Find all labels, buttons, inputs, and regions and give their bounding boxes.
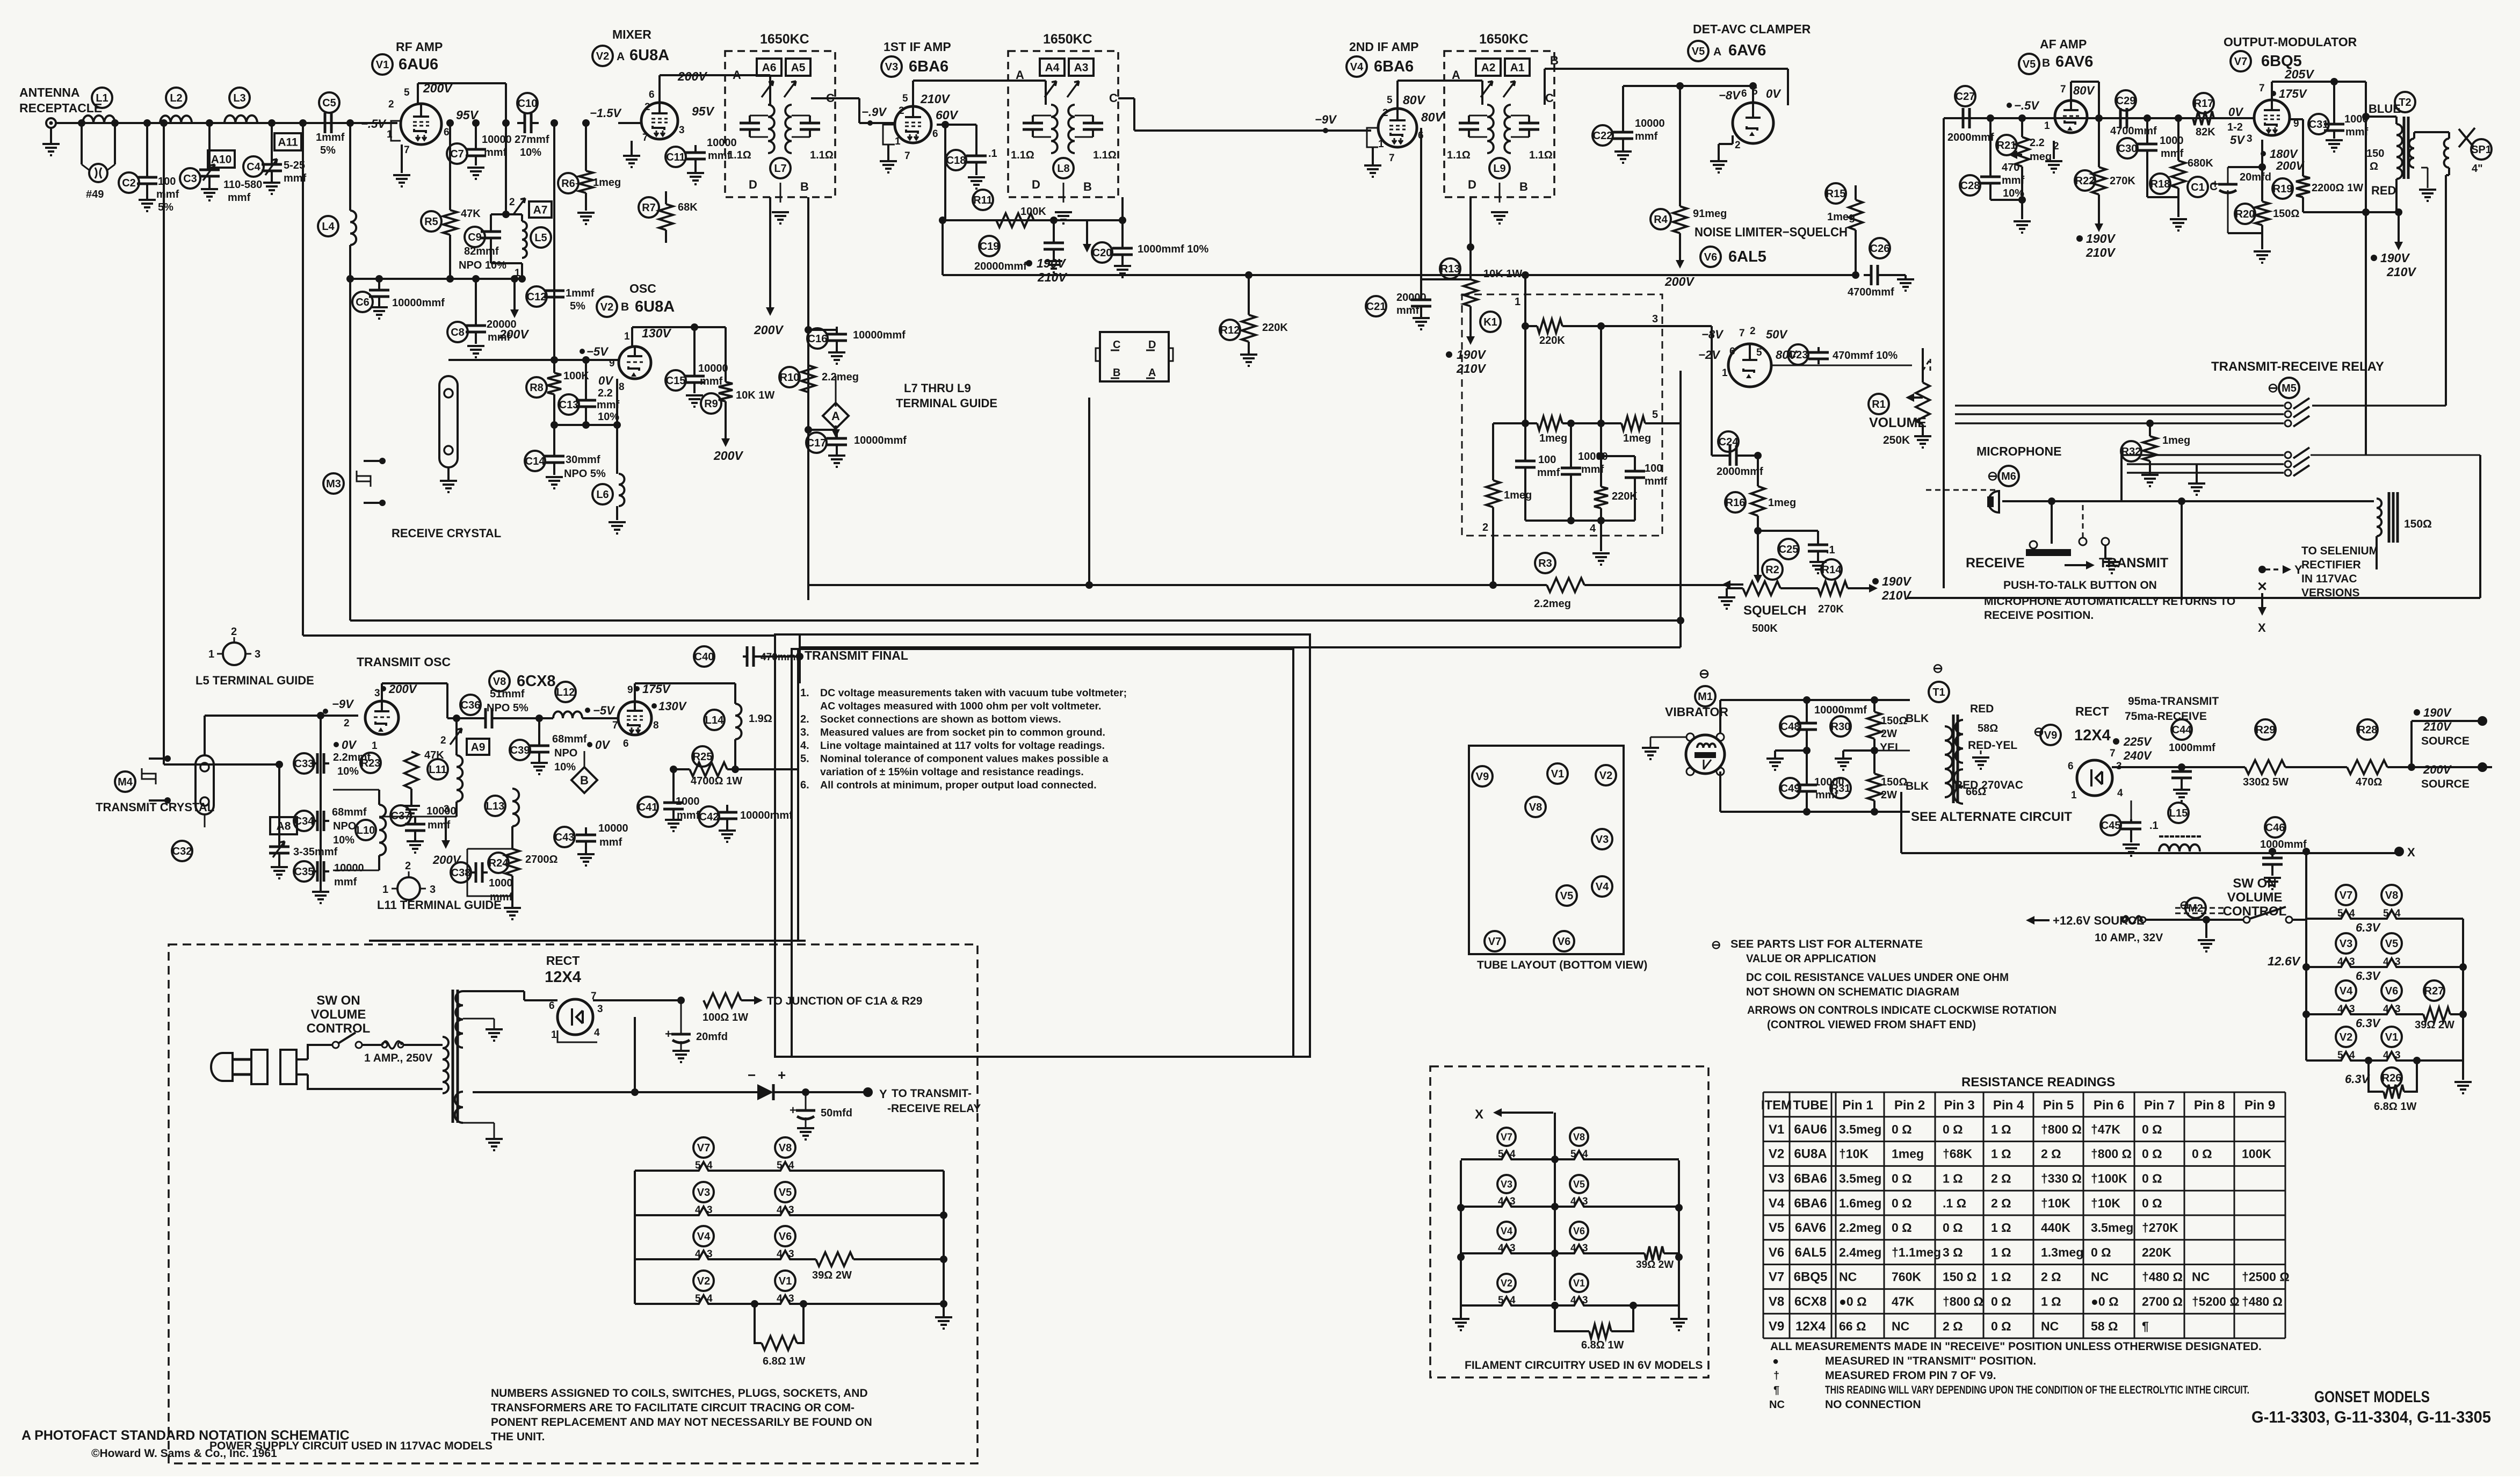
svg-text:220K: 220K	[1539, 335, 1565, 347]
svg-text:2: 2	[440, 735, 446, 746]
svg-text:2W: 2W	[1881, 728, 1897, 740]
svg-text:0 Ω: 0 Ω	[2142, 1172, 2162, 1186]
svg-text:DC voltage measurements taken: DC voltage measurements taken with vacuu…	[820, 687, 1127, 699]
svg-text:V4: V4	[1596, 881, 1609, 893]
svg-text:27mmf: 27mmf	[515, 134, 549, 146]
svg-text:BLK: BLK	[1906, 780, 1929, 792]
svg-text:2: 2	[1750, 326, 1756, 337]
svg-text:1000mmf 10%: 1000mmf 10%	[1138, 243, 1209, 255]
svg-text:+12.6V SOURCE: +12.6V SOURCE	[2053, 914, 2145, 927]
svg-text:mmf: mmf	[428, 819, 451, 831]
svg-text:3.5meg: 3.5meg	[1839, 1122, 1881, 1136]
svg-text:V1: V1	[1573, 1278, 1585, 1288]
svg-text:3: 3	[788, 1249, 794, 1260]
svg-text:V6: V6	[2385, 985, 2398, 997]
svg-text:mmf: mmf	[708, 150, 731, 162]
svg-text:1.9Ω: 1.9Ω	[749, 713, 772, 725]
svg-text:10000: 10000	[334, 862, 364, 874]
svg-text:200V: 200V	[1664, 275, 1695, 288]
svg-text:R22: R22	[2075, 175, 2095, 187]
svg-text:RECEIVE CRYSTAL: RECEIVE CRYSTAL	[392, 526, 501, 540]
svg-text:6AV6: 6AV6	[1728, 42, 1766, 59]
svg-text:12.6V: 12.6V	[2268, 954, 2301, 968]
svg-text:R18: R18	[2150, 178, 2170, 190]
svg-text:6BA6: 6BA6	[1794, 1172, 1827, 1186]
svg-text:6.8Ω 1W: 6.8Ω 1W	[2374, 1101, 2417, 1113]
svg-text:C25: C25	[1779, 544, 1799, 555]
svg-text:C27: C27	[1956, 91, 1975, 103]
svg-text:R25: R25	[693, 751, 713, 763]
svg-text:A4: A4	[1045, 62, 1060, 74]
svg-text:SEE ALTERNATE CIRCUIT: SEE ALTERNATE CIRCUIT	[1911, 810, 2072, 824]
svg-text:2700Ω: 2700Ω	[525, 854, 558, 865]
svg-text:mmf: mmf	[156, 189, 179, 200]
svg-text:2200Ω 1W: 2200Ω 1W	[2312, 182, 2363, 194]
svg-text:4: 4	[594, 1027, 600, 1038]
svg-text:V2: V2	[1769, 1147, 1784, 1161]
svg-text:1 Ω: 1 Ω	[2041, 1295, 2061, 1309]
svg-text:6CX8: 6CX8	[517, 673, 556, 690]
svg-text:6.8Ω 1W: 6.8Ω 1W	[1581, 1339, 1624, 1351]
svg-text:−2V: −2V	[1698, 348, 1721, 362]
svg-text:V4: V4	[2340, 985, 2353, 997]
svg-text:RECT: RECT	[2075, 704, 2109, 718]
svg-text:C33: C33	[294, 758, 314, 770]
svg-text:1ST IF AMP: 1ST IF AMP	[884, 40, 951, 54]
svg-text:3: 3	[2349, 956, 2355, 968]
svg-text:OUTPUT-MODULATOR: OUTPUT-MODULATOR	[2224, 35, 2357, 49]
svg-text:R28: R28	[2358, 724, 2378, 736]
svg-text:150 Ω: 150 Ω	[1943, 1270, 1976, 1284]
svg-text:0V: 0V	[2228, 105, 2244, 119]
svg-text:3: 3	[1582, 1243, 1588, 1254]
svg-text:variation of ± 15%in voltage a: variation of ± 15%in voltage and resista…	[820, 766, 1084, 778]
svg-text:1meg: 1meg	[593, 177, 621, 189]
svg-text:95ma-TRANSMIT: 95ma-TRANSMIT	[2128, 695, 2219, 708]
svg-text:110-580: 110-580	[223, 179, 262, 191]
svg-text:OSC: OSC	[629, 282, 656, 295]
svg-text:205V: 205V	[2284, 67, 2314, 81]
svg-text:7: 7	[2259, 83, 2265, 94]
svg-text:5: 5	[695, 1293, 701, 1304]
svg-text:FILAMENT CIRCUITRY USED IN 6V: FILAMENT CIRCUITRY USED IN 6V MODELS	[1465, 1359, 1703, 1372]
svg-text:Socket connections are shown a: Socket connections are shown as bottom v…	[820, 713, 1061, 725]
svg-text:−: −	[748, 1067, 756, 1083]
svg-text:V4: V4	[697, 1231, 711, 1243]
svg-text:7: 7	[904, 150, 910, 162]
svg-text:10000mmf: 10000mmf	[854, 435, 907, 446]
svg-text:©Howard W. Sams & Co., In: ©Howard W. Sams & Co., Inc. 1961	[91, 1447, 277, 1460]
svg-text:190V: 190V	[2086, 232, 2116, 246]
svg-text:210V: 210V	[1456, 362, 1486, 376]
svg-text:MICROPHONE: MICROPHONE	[1976, 444, 2061, 458]
svg-text:4: 4	[1498, 1196, 1504, 1207]
svg-text:R29: R29	[2256, 724, 2276, 736]
svg-text:C18: C18	[946, 155, 966, 167]
svg-text:AF AMP: AF AMP	[2040, 37, 2087, 51]
svg-text:V1: V1	[1551, 768, 1564, 780]
svg-text:.1 Ω: .1 Ω	[1943, 1196, 1966, 1210]
svg-text:M4: M4	[118, 776, 133, 788]
svg-text:TRANSMIT-RECEIVE RELAY: TRANSMIT-RECEIVE RELAY	[2211, 359, 2384, 374]
svg-text:C44: C44	[2172, 724, 2192, 736]
svg-text:¶: ¶	[1773, 1384, 1779, 1396]
svg-text:V3: V3	[1501, 1179, 1512, 1189]
svg-text:3: 3	[1510, 1196, 1516, 1207]
svg-text:10%: 10%	[520, 147, 541, 158]
svg-text:†270K: †270K	[2142, 1221, 2178, 1235]
svg-text:mmf: mmf	[334, 876, 357, 888]
svg-text:3 Ω: 3 Ω	[1943, 1245, 1963, 1259]
svg-text:C23: C23	[1788, 349, 1808, 361]
svg-text:5: 5	[1652, 409, 1658, 421]
svg-text:C34: C34	[294, 816, 315, 827]
svg-text:mmf: mmf	[677, 810, 700, 821]
svg-text:C35: C35	[294, 866, 314, 878]
svg-text:SOURCE: SOURCE	[2421, 778, 2470, 790]
svg-text:2000mmf: 2000mmf	[1947, 132, 1994, 143]
svg-text:X: X	[2258, 621, 2266, 634]
svg-text:TRANSMIT: TRANSMIT	[2099, 555, 2168, 571]
svg-text:4: 4	[1498, 1243, 1504, 1254]
svg-text:2.2meg: 2.2meg	[1839, 1221, 1881, 1235]
svg-text:Y: Y	[2294, 563, 2302, 576]
svg-text:1: 1	[1722, 367, 1728, 379]
svg-text:12X4: 12X4	[1795, 1319, 1826, 1333]
svg-text:NUMBERS ASSIGNED TO COILS, SWI: NUMBERS ASSIGNED TO COILS, SWITCHES, PLU…	[491, 1387, 868, 1399]
svg-text:THIS READING WILL VARY DEPENDI: THIS READING WILL VARY DEPENDING UPON TH…	[1825, 1384, 2249, 1396]
svg-text:R6: R6	[561, 178, 575, 190]
svg-text:1mmf: 1mmf	[566, 287, 595, 299]
svg-text:BLK: BLK	[1906, 712, 1929, 725]
svg-text:2.2meg: 2.2meg	[822, 371, 859, 383]
svg-text:C45: C45	[2101, 820, 2121, 832]
svg-text:3: 3	[255, 648, 260, 660]
svg-text:3: 3	[1652, 313, 1658, 325]
svg-text:0 Ω: 0 Ω	[1892, 1196, 1912, 1210]
svg-text:100K: 100K	[1020, 206, 1046, 218]
svg-text:250K: 250K	[1883, 434, 1910, 446]
svg-text:L11 TERMINAL GUIDE: L11 TERMINAL GUIDE	[377, 898, 502, 912]
svg-text:R4: R4	[1654, 214, 1668, 226]
svg-text:(CONTROL VIEWED FROM SHAFT: (CONTROL VIEWED FROM SHAFT END)	[1767, 1019, 1976, 1031]
svg-text:−5V: −5V	[593, 704, 615, 717]
svg-text:B: B	[621, 301, 629, 313]
svg-text:1 Ω: 1 Ω	[1991, 1245, 2011, 1259]
svg-text:680K: 680K	[2188, 157, 2213, 169]
svg-text:2.2: 2.2	[598, 387, 613, 399]
svg-text:6.: 6.	[800, 780, 809, 791]
svg-text:Measured values are from socke: Measured values are from socket pin to c…	[820, 727, 1105, 739]
svg-text:7: 7	[1389, 153, 1395, 164]
svg-text:60V: 60V	[936, 108, 959, 122]
svg-text:VOLUME: VOLUME	[311, 1007, 366, 1022]
svg-text:L12: L12	[556, 687, 575, 698]
svg-text:1.: 1.	[800, 687, 809, 699]
svg-text:1 Ω: 1 Ω	[1991, 1122, 2011, 1136]
svg-text:82mmf: 82mmf	[464, 246, 499, 257]
svg-text:6.8Ω 1W: 6.8Ω 1W	[763, 1355, 806, 1367]
svg-text:6.3V: 6.3V	[2356, 921, 2381, 934]
svg-text:R32: R32	[2121, 446, 2141, 458]
svg-text:A9: A9	[471, 741, 486, 754]
svg-text:330Ω 5W: 330Ω 5W	[2243, 776, 2289, 788]
svg-text:2: 2	[899, 105, 904, 117]
svg-text:●0 Ω: ●0 Ω	[2091, 1295, 2119, 1309]
svg-text:270K: 270K	[2110, 175, 2135, 187]
svg-text:R12: R12	[1220, 324, 1240, 336]
svg-text:mmf: mmf	[1635, 131, 1658, 142]
svg-text:Pin 7: Pin 7	[2144, 1098, 2175, 1113]
svg-text:C12: C12	[527, 291, 547, 303]
svg-text:L13: L13	[486, 800, 504, 812]
svg-text:†5200 Ω: †5200 Ω	[2192, 1295, 2240, 1309]
svg-text:Pin 2: Pin 2	[1894, 1098, 1925, 1113]
svg-text:V3: V3	[697, 1187, 710, 1199]
svg-text:NC: NC	[1769, 1399, 1785, 1411]
svg-text:225V: 225V	[2123, 735, 2153, 748]
svg-text:2.4meg: 2.4meg	[1839, 1245, 1881, 1259]
svg-text:1: 1	[624, 331, 630, 342]
svg-text:ARROWS ON CONTROLS INDICATE: ARROWS ON CONTROLS INDICATE CLOCKWISE RO…	[1747, 1004, 2056, 1016]
svg-text:200V: 200V	[754, 323, 784, 337]
svg-text:⊖: ⊖	[2033, 725, 2044, 739]
svg-text:210V: 210V	[920, 92, 950, 106]
svg-text:TUBE: TUBE	[1793, 1098, 1828, 1113]
svg-text:2 Ω: 2 Ω	[2041, 1270, 2061, 1284]
svg-text:470: 470	[2002, 162, 2019, 174]
svg-text:5%: 5%	[570, 300, 585, 312]
svg-text:20000mmf: 20000mmf	[974, 261, 1027, 272]
svg-text:6: 6	[2068, 761, 2074, 772]
svg-text:AC voltages measured with 1000: AC voltages measured with 1000 ohm per v…	[820, 701, 1101, 712]
svg-text:2: 2	[405, 860, 411, 872]
svg-text:L7: L7	[774, 163, 786, 175]
svg-text:270K: 270K	[1818, 603, 1844, 615]
svg-text:3: 3	[2349, 1004, 2355, 1015]
svg-text:4: 4	[2117, 788, 2123, 799]
svg-text:7: 7	[404, 145, 410, 156]
svg-text:10K 1W: 10K 1W	[736, 389, 774, 401]
svg-text:4: 4	[707, 1160, 713, 1171]
svg-text:6AL5: 6AL5	[1728, 248, 1766, 265]
svg-text:V4: V4	[1769, 1196, 1785, 1210]
svg-text:R21: R21	[1997, 140, 2017, 151]
svg-text:V3: V3	[2340, 938, 2352, 950]
svg-text:6BA6: 6BA6	[1794, 1196, 1827, 1210]
svg-text:V8: V8	[779, 1142, 792, 1154]
svg-text:10000mmf: 10000mmf	[740, 810, 793, 821]
svg-text:†1.1meg: †1.1meg	[1892, 1245, 1941, 1259]
svg-text:MEASURED IN "TRANSMIT" POSITIO: MEASURED IN "TRANSMIT" POSITION.	[1825, 1355, 2036, 1367]
svg-text:4.: 4.	[800, 740, 809, 752]
svg-text:2: 2	[1735, 140, 1741, 151]
svg-text:4": 4"	[2472, 163, 2483, 175]
svg-text:L3: L3	[233, 92, 245, 104]
svg-text:V5: V5	[2023, 59, 2036, 70]
svg-text:MIXER: MIXER	[612, 27, 651, 41]
svg-text:RESISTANCE READINGS: RESISTANCE READINGS	[1961, 1075, 2115, 1090]
svg-text:3: 3	[679, 125, 685, 136]
svg-text:V8: V8	[493, 676, 506, 688]
svg-text:C49: C49	[1780, 783, 1800, 795]
svg-text:C9: C9	[468, 232, 482, 243]
svg-text:10 AMP., 32V: 10 AMP., 32V	[2095, 932, 2163, 944]
svg-text:2: 2	[344, 718, 350, 729]
svg-text:V7: V7	[2234, 56, 2247, 68]
svg-text:440K: 440K	[2041, 1221, 2070, 1235]
svg-text:R17: R17	[2194, 98, 2214, 110]
svg-text:⊖: ⊖	[1699, 667, 1710, 681]
svg-text:Pin 9: Pin 9	[2244, 1098, 2275, 1113]
svg-text:R7: R7	[642, 202, 656, 214]
svg-text:C31: C31	[2309, 119, 2329, 131]
svg-text:4: 4	[2337, 956, 2343, 968]
svg-text:A6: A6	[762, 62, 777, 74]
svg-text:Pin 4: Pin 4	[1993, 1098, 2024, 1113]
svg-text:68mmf: 68mmf	[332, 806, 367, 818]
svg-text:1.1Ω: 1.1Ω	[810, 149, 834, 161]
svg-text:5V: 5V	[2230, 133, 2246, 147]
svg-text:†330 Ω: †330 Ω	[2041, 1172, 2082, 1186]
svg-text:6: 6	[649, 89, 655, 100]
svg-text:1: 1	[1515, 296, 1520, 308]
svg-text:2: 2	[645, 102, 650, 113]
svg-text:175V: 175V	[2279, 87, 2308, 100]
svg-text:RECEIVE: RECEIVE	[1966, 555, 2025, 571]
svg-text:A PHOTOFACT STANDARD NOTATI: A PHOTOFACT STANDARD NOTATION SCHEMATIC	[21, 1428, 350, 1443]
svg-text:−1.5V: −1.5V	[590, 106, 622, 120]
svg-text:10%: 10%	[554, 761, 576, 773]
svg-text:80V: 80V	[1421, 110, 1444, 124]
svg-text:500K: 500K	[1752, 623, 1778, 634]
svg-text:4: 4	[1510, 1295, 1516, 1306]
svg-text:mmf: mmf	[1537, 467, 1560, 479]
svg-text:RF AMP: RF AMP	[396, 40, 443, 54]
svg-text:†: †	[1773, 1370, 1779, 1382]
svg-text:R13: R13	[1440, 263, 1460, 275]
svg-text:DET-AVC CLAMPER: DET-AVC CLAMPER	[1693, 22, 1811, 36]
svg-text:L14: L14	[705, 715, 724, 726]
svg-text:†68K: †68K	[1943, 1147, 1972, 1161]
svg-text:V3: V3	[1596, 834, 1609, 846]
svg-text:210V: 210V	[2085, 246, 2116, 259]
svg-text:ALL MEASUREMENTS MADE IN "RECE: ALL MEASUREMENTS MADE IN "RECEIVE" POSIT…	[1770, 1340, 2262, 1353]
svg-text:4: 4	[777, 1249, 783, 1260]
svg-text:meg: meg	[2030, 151, 2052, 163]
svg-text:82K: 82K	[2196, 126, 2215, 138]
svg-text:D: D	[1468, 178, 1476, 191]
svg-text:1: 1	[515, 268, 520, 279]
svg-text:V4: V4	[1501, 1225, 1512, 1236]
svg-text:V9: V9	[1476, 771, 1489, 783]
svg-text:10000: 10000	[598, 823, 628, 834]
svg-text:4: 4	[1570, 1196, 1576, 1207]
svg-text:0 Ω: 0 Ω	[1943, 1122, 1963, 1136]
svg-text:3: 3	[707, 1204, 713, 1216]
svg-text:6: 6	[1729, 346, 1735, 357]
svg-text:†10K: †10K	[2041, 1196, 2070, 1210]
svg-text:3: 3	[1510, 1243, 1516, 1254]
svg-text:D: D	[1032, 178, 1040, 191]
svg-text:B: B	[1113, 367, 1120, 379]
svg-text:L9: L9	[1493, 163, 1505, 175]
svg-text:50mfd: 50mfd	[821, 1107, 852, 1119]
svg-text:1-2: 1-2	[2227, 121, 2243, 133]
svg-text:Line voltage maintained at 117: Line voltage maintained at 117 volts for…	[820, 740, 1105, 752]
svg-text:TERMINAL GUIDE: TERMINAL GUIDE	[896, 396, 997, 410]
svg-text:B: B	[800, 180, 809, 193]
svg-text:RED 270VAC: RED 270VAC	[1954, 779, 2023, 791]
svg-text:V8: V8	[1529, 802, 1542, 813]
svg-text:Y: Y	[879, 1087, 887, 1101]
svg-text:M5: M5	[2282, 383, 2297, 394]
svg-text:1: 1	[208, 648, 214, 660]
svg-text:NPO 5%: NPO 5%	[564, 468, 606, 480]
svg-text:SP1: SP1	[2471, 144, 2492, 156]
svg-text:NO CONNECTION: NO CONNECTION	[1825, 1398, 1921, 1411]
svg-text:1650KC: 1650KC	[1479, 32, 1529, 47]
svg-text:C30: C30	[2118, 143, 2138, 155]
svg-text:100: 100	[158, 176, 176, 187]
svg-text:1mmf: 1mmf	[316, 132, 345, 143]
svg-text:C5: C5	[322, 97, 336, 109]
svg-text:5: 5	[2337, 1050, 2343, 1061]
svg-text:1.3meg: 1.3meg	[2041, 1245, 2083, 1259]
svg-text:X: X	[2407, 846, 2415, 859]
svg-text:TRANSMIT OSC: TRANSMIT OSC	[357, 655, 451, 669]
svg-text:68K: 68K	[678, 201, 698, 213]
svg-text:C10: C10	[518, 98, 538, 110]
svg-text:VERSIONS: VERSIONS	[2301, 587, 2360, 599]
svg-text:PUSH-TO-TALK BUTTON ON: PUSH-TO-TALK BUTTON ON	[2003, 579, 2157, 591]
svg-text:A3: A3	[1074, 62, 1089, 74]
svg-text:M6: M6	[2001, 471, 2016, 482]
svg-text:R15: R15	[1826, 188, 1846, 200]
svg-text:C15: C15	[666, 375, 686, 387]
svg-text:NPO: NPO	[333, 820, 356, 832]
svg-text:200V: 200V	[499, 327, 529, 341]
svg-text:TO SELENIUM: TO SELENIUM	[2301, 545, 2378, 557]
svg-text:10000mmf: 10000mmf	[1814, 704, 1867, 716]
svg-text:150: 150	[2366, 148, 2384, 160]
svg-text:TRANSFORMERS ARE TO FACILITAT: TRANSFORMERS ARE TO FACILITATE CIRCUIT T…	[491, 1402, 855, 1414]
svg-text:5: 5	[2337, 908, 2343, 919]
svg-text:4: 4	[2383, 956, 2389, 968]
svg-text:2 Ω: 2 Ω	[1991, 1172, 2011, 1186]
svg-text:4: 4	[1570, 1295, 1576, 1306]
svg-text:A: A	[1148, 367, 1156, 379]
svg-text:1meg: 1meg	[1539, 432, 1567, 444]
svg-text:2.: 2.	[800, 713, 809, 725]
svg-text:1meg: 1meg	[1892, 1147, 1924, 1161]
svg-text:6.3V: 6.3V	[2356, 1016, 2381, 1030]
svg-text:10000: 10000	[482, 134, 512, 146]
svg-text:V6: V6	[779, 1231, 792, 1243]
svg-text:5: 5	[902, 93, 908, 104]
svg-text:1.1Ω: 1.1Ω	[728, 149, 751, 161]
svg-text:D: D	[1148, 339, 1156, 351]
svg-text:mmf: mmf	[2002, 175, 2025, 186]
svg-text:PONENT REPLACEMENT AND MAY N: PONENT REPLACEMENT AND MAY NOT NECESSARI…	[491, 1416, 872, 1429]
svg-text:NOISE LIMITER−SQUELCH: NOISE LIMITER−SQUELCH	[1695, 225, 1848, 240]
svg-text:−8V: −8V	[1701, 328, 1724, 341]
svg-text:R19: R19	[2273, 183, 2293, 195]
svg-text:†800 Ω: †800 Ω	[2041, 1122, 2082, 1136]
svg-text:5%: 5%	[158, 201, 173, 213]
svg-text:3: 3	[2247, 133, 2253, 145]
svg-text:All controls at minimum, prop: All controls at minimum, proper output l…	[820, 780, 1097, 791]
